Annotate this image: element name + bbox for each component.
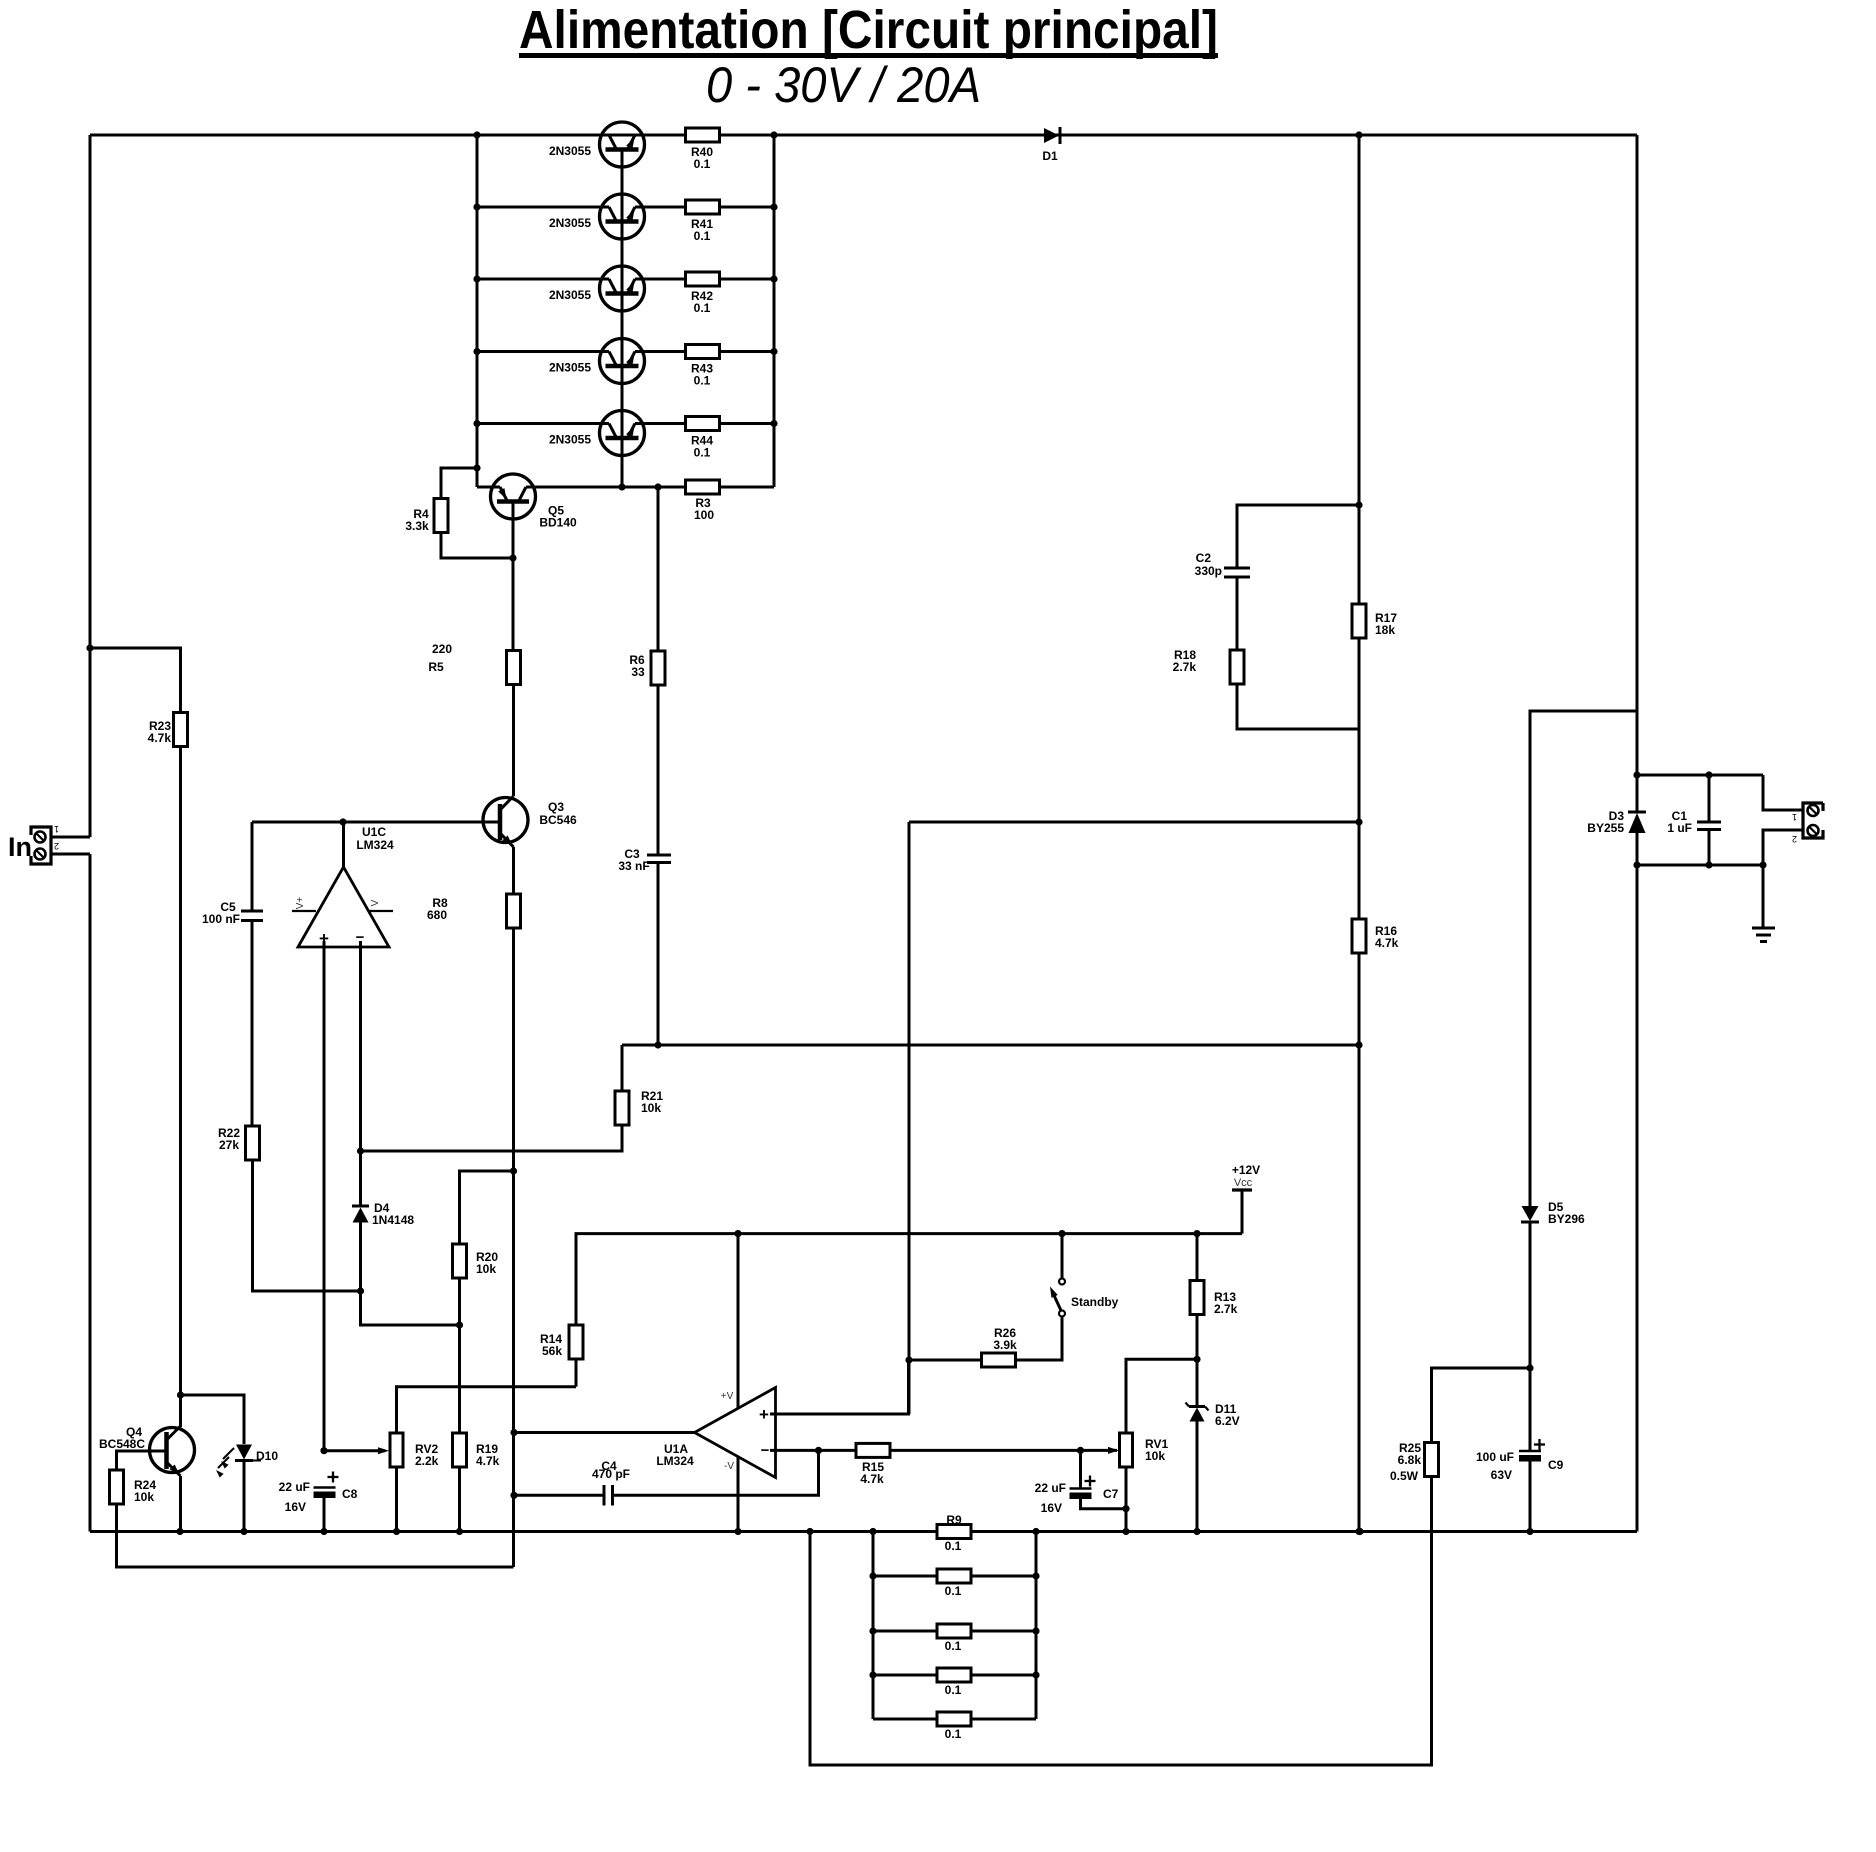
- wire array row 3 left: [873, 1630, 937, 1633]
- svg-text:10k: 10k: [134, 1490, 154, 1504]
- svg-text:2.2k: 2.2k: [415, 1454, 439, 1468]
- wire bottom bus: [90, 1530, 936, 1533]
- svg-text:R5: R5: [428, 660, 444, 674]
- svg-text:1: 1: [54, 824, 59, 834]
- node bus C9: [1526, 1528, 1533, 1535]
- svg-text:18k: 18k: [1375, 623, 1395, 637]
- node RV1 C7 junction: [1122, 1505, 1129, 1512]
- resistor R25 6.8k 0.5W: [1390, 1441, 1439, 1483]
- wire array row 4 right: [971, 1674, 1036, 1677]
- svg-text:0.1: 0.1: [945, 1639, 962, 1653]
- svg-text:2.7k: 2.7k: [1214, 1302, 1238, 1316]
- wire right rail low: [1358, 953, 1361, 1532]
- wire R26 left: [909, 1359, 982, 1362]
- wire R4 bottom: [441, 533, 513, 559]
- svg-text:V+: V+: [295, 897, 306, 910]
- wire array right branch: [1035, 1532, 1038, 1720]
- resistor R15 4.7k: [856, 1443, 890, 1486]
- diode D3 BY255: [1587, 809, 1646, 835]
- svg-text:10k: 10k: [476, 1262, 496, 1276]
- node bus array right: [1032, 1528, 1039, 1535]
- wire emitter row R42: [643, 278, 686, 281]
- node R23 junction: [86, 644, 93, 651]
- svg-text:V: V: [370, 899, 381, 906]
- resistor R22 27k: [218, 1126, 260, 1160]
- wire U1C noninverting input: [323, 941, 326, 1451]
- resistor R41 0.1: [686, 200, 720, 243]
- node sense on right rail: [1355, 818, 1362, 825]
- wire C4 left: [514, 1494, 604, 1497]
- node R25 junction: [1526, 1364, 1533, 1371]
- capacitor C9 100 uF 63V: [1476, 1439, 1564, 1482]
- svg-text:C9: C9: [1548, 1458, 1564, 1472]
- node C2 junction: [1355, 501, 1362, 508]
- node U1A V+ junction: [734, 1230, 741, 1237]
- wire Q3 base net: [252, 821, 483, 824]
- wire array row 3 right: [971, 1630, 1036, 1633]
- transistor Q40 2N3055: [549, 122, 645, 167]
- wire C4 right: [613, 1450, 819, 1495]
- resistor R43 0.1: [686, 345, 720, 388]
- svg-text:10k: 10k: [641, 1101, 661, 1115]
- svg-text:330p: 330p: [1195, 564, 1222, 578]
- svg-text:2N3055: 2N3055: [549, 361, 591, 375]
- wire output top: [1637, 774, 1763, 777]
- svg-text:BY296: BY296: [1548, 1212, 1585, 1226]
- node output bottom junction: [1633, 861, 1640, 868]
- wire R23 top: [90, 648, 181, 713]
- node bus R19: [456, 1528, 463, 1535]
- node D10 branch junction: [177, 1391, 184, 1398]
- node bus C8: [320, 1528, 327, 1535]
- node R20 to emitter line: [510, 1167, 517, 1174]
- node emitter rail: [770, 275, 777, 282]
- svg-text:0.1: 0.1: [694, 374, 711, 388]
- svg-text:-V: -V: [724, 1461, 734, 1472]
- connector In: [31, 824, 59, 864]
- node array left row 3: [869, 1627, 876, 1634]
- transistor Q44 2N3055: [549, 411, 645, 456]
- capacitor C2 330p: [1195, 551, 1250, 578]
- svg-text:Vcc: Vcc: [1234, 1177, 1253, 1189]
- wire D10 branch: [181, 1395, 245, 1444]
- svg-text:U1C: U1C: [362, 825, 386, 839]
- svg-text:1N4148: 1N4148: [372, 1213, 414, 1227]
- svg-text:470 pF: 470 pF: [592, 1467, 630, 1481]
- node bus loop: [806, 1528, 813, 1535]
- potentiometer RV2 2.2k: [324, 1433, 439, 1468]
- wire emitter row R41: [643, 206, 686, 209]
- wire Q4 base: [117, 1451, 151, 1470]
- resistor R6 33: [629, 651, 665, 685]
- wire C9 bottom: [1529, 1462, 1532, 1532]
- svg-text:4.7k: 4.7k: [1375, 936, 1399, 950]
- svg-text:0.1: 0.1: [945, 1727, 962, 1741]
- svg-text:+V: +V: [721, 1391, 734, 1402]
- svg-text:16V: 16V: [285, 1500, 306, 1514]
- svg-text:10k: 10k: [1145, 1449, 1165, 1463]
- resistor R21 10k: [615, 1089, 663, 1125]
- svg-text:0.1: 0.1: [694, 301, 711, 315]
- wire R13 bottom: [1196, 1315, 1199, 1360]
- node inverting input junction: [357, 1147, 364, 1154]
- wire In pin2: [51, 853, 90, 856]
- resistor R16 4.7k: [1352, 919, 1399, 953]
- wire D5 branch top: [1530, 711, 1637, 1206]
- node array right row 3: [1032, 1627, 1039, 1634]
- svg-text:0.1: 0.1: [945, 1584, 962, 1598]
- svg-text:BC546: BC546: [539, 813, 577, 827]
- wire R20 top: [460, 1171, 514, 1252]
- node D11 junction: [1193, 1356, 1200, 1363]
- resistor R9 0.1: [937, 1513, 971, 1553]
- node bus U1A -V: [734, 1528, 741, 1535]
- svg-text:100: 100: [694, 508, 714, 522]
- resistor R4 3.3k: [405, 499, 448, 534]
- wire C5 to R22: [251, 921, 254, 1128]
- wire collector row R41: [477, 206, 601, 209]
- resistor R40 0.1: [686, 128, 720, 171]
- node C4 feedback junction: [815, 1447, 822, 1454]
- wire U1A output: [514, 1431, 695, 1434]
- svg-text:0 - 30V / 20A: 0 - 30V / 20A: [706, 57, 981, 113]
- node emitter rail: [770, 348, 777, 355]
- node Q5 base junction: [509, 554, 516, 561]
- node U1A output junction: [510, 1429, 517, 1436]
- transistor Q4 BC548C: [99, 1425, 195, 1476]
- wire far right rail: [1636, 135, 1639, 812]
- node ground junction: [1759, 861, 1766, 868]
- svg-text:In: In: [8, 832, 32, 862]
- wire collector row R40: [477, 134, 601, 137]
- svg-text:BD140: BD140: [539, 516, 577, 530]
- wire U1A noninverting wire: [770, 1360, 909, 1414]
- capacitor C4 470 pF: [592, 1459, 630, 1506]
- label In: [8, 832, 32, 862]
- wire C2 branch: [1237, 505, 1359, 568]
- wire R44 to rail: [720, 422, 775, 425]
- node bus right rail: [1356, 1528, 1363, 1535]
- resistor R44 0.1: [686, 417, 720, 460]
- wire R23 to Q4: [179, 747, 182, 1428]
- node collector rail row3: [473, 275, 480, 282]
- node bus array left: [869, 1528, 876, 1535]
- svg-text:220: 220: [432, 642, 452, 656]
- node In return corner: [89, 854, 92, 1532]
- resistor R19 4.7k: [453, 1433, 500, 1468]
- wire collector row R42: [477, 278, 601, 281]
- wire D11 bottom: [1196, 1422, 1199, 1532]
- wire R14 top: [576, 1234, 738, 1325]
- wire top rail junction at R40 rail: [770, 131, 777, 138]
- svg-text:6.8k: 6.8k: [1398, 1453, 1422, 1467]
- transistor Q3 BC546: [483, 796, 577, 847]
- wire R13 top: [1196, 1234, 1199, 1281]
- svg-text:LM324: LM324: [356, 838, 394, 852]
- node R13 junction: [1193, 1230, 1200, 1237]
- wire sense to R21: [621, 1045, 624, 1092]
- subtitle: 0 - 30V / 20A: [706, 57, 981, 113]
- wire R24 bottom: [117, 1504, 514, 1567]
- capacitor C5 100 nF: [202, 900, 263, 926]
- svg-text:3.9k: 3.9k: [993, 1338, 1017, 1352]
- node RV1 wiper junction: [1077, 1447, 1084, 1454]
- wire emitter resistor rail: [773, 135, 776, 487]
- wire Q3 emitter to R8: [512, 847, 515, 894]
- wire RV1 top: [1126, 1359, 1197, 1433]
- wire array row 2 left: [873, 1575, 937, 1578]
- wire C7 bottom: [1081, 1499, 1127, 1509]
- svg-text:22 uF: 22 uF: [279, 1480, 310, 1494]
- wire D4 junction down: [361, 1291, 460, 1325]
- wire R5 to Q3 collector: [512, 685, 515, 797]
- node array right row 2: [1032, 1572, 1039, 1579]
- transistor Q5 BD140: [491, 474, 578, 558]
- resistor R42 0.1: [686, 272, 720, 315]
- node collector rail row2: [473, 203, 480, 210]
- wire array left branch: [872, 1532, 875, 1720]
- svg-text:C8: C8: [342, 1487, 358, 1501]
- svg-text:1: 1: [1792, 812, 1797, 822]
- wire R15 to RV1: [890, 1449, 1117, 1452]
- switch Standby: [1050, 1279, 1119, 1317]
- wire right rail top: [1358, 135, 1361, 605]
- svg-text:2N3055: 2N3055: [549, 144, 591, 158]
- resistor R5 220: [428, 642, 520, 685]
- node noninverting junction: [905, 1356, 912, 1363]
- op-amp U1C LM324: [292, 822, 394, 948]
- wire sense horizontal: [622, 1044, 1359, 1047]
- wire emitter row R40: [643, 134, 686, 137]
- resistor R9 parallel 3 0.1: [937, 1624, 971, 1653]
- svg-text:+: +: [759, 1405, 769, 1424]
- wire R41 to rail: [720, 206, 775, 209]
- node bus RV2: [393, 1528, 400, 1535]
- svg-text:2: 2: [1792, 834, 1797, 844]
- wire top rail junction at left collector rail: [473, 131, 480, 138]
- node bus RV1: [1122, 1528, 1129, 1535]
- node standby junction: [1058, 1230, 1065, 1237]
- svg-text:4.7k: 4.7k: [148, 731, 172, 745]
- wire R42 to rail: [720, 278, 775, 281]
- wire R25 top: [1432, 1368, 1531, 1443]
- zener D11 6.2V: [1186, 1402, 1240, 1428]
- wire top rail junction at right sense rail: [1355, 131, 1362, 138]
- svg-text:2: 2: [54, 841, 59, 851]
- capacitor C7 22 uF 16V: [1035, 1476, 1119, 1516]
- svg-text:2.7k: 2.7k: [1173, 660, 1197, 674]
- svg-text:2N3055: 2N3055: [549, 288, 591, 302]
- svg-text:3.3k: 3.3k: [405, 519, 429, 533]
- svg-text:680: 680: [427, 908, 447, 922]
- wire R8 down feedback: [512, 928, 515, 1567]
- wire sense feedback: [909, 821, 1359, 824]
- wire array row 2 right: [971, 1575, 1036, 1578]
- wire RV2 top: [397, 1387, 577, 1433]
- resistor R9 parallel 4 0.1: [937, 1668, 971, 1697]
- wire R21 bottom: [361, 1125, 623, 1151]
- svg-text:33: 33: [631, 665, 645, 679]
- ground: [1752, 928, 1775, 942]
- wire Q4 emitter: [179, 1476, 182, 1532]
- wire R43 to rail: [720, 350, 775, 353]
- capacitor C8 22 uF 16V: [279, 1472, 358, 1515]
- resistor R9 parallel 2 0.1: [937, 1569, 971, 1598]
- wire C7 top: [1079, 1450, 1082, 1488]
- wire U1A inverting wire: [770, 1449, 856, 1452]
- wire standby bottom: [1015, 1317, 1062, 1361]
- node top-left corner: [89, 135, 92, 837]
- wire R14 bottom: [575, 1359, 578, 1387]
- LED D10: [216, 1445, 278, 1478]
- svg-text:100 nF: 100 nF: [202, 912, 240, 926]
- node emitter rail: [770, 203, 777, 210]
- wire to D4: [359, 1151, 362, 1206]
- wire array row 5 right: [971, 1718, 1036, 1721]
- title: Alimentation [Circuit principal]: [519, 0, 1218, 60]
- wire sense vertical: [908, 822, 911, 1414]
- node collector rail row5: [473, 420, 480, 427]
- svg-text:Alimentation [Circuit principa: Alimentation [Circuit principal]: [519, 0, 1218, 60]
- capacitor C1 1 uF: [1667, 775, 1721, 865]
- connector Out: [1792, 803, 1823, 844]
- wire R4 top: [441, 468, 477, 499]
- node bus Q4 emitter: [176, 1528, 183, 1535]
- node array left row 2: [869, 1572, 876, 1579]
- diode D5 BY296: [1521, 1200, 1585, 1226]
- resistor R9 parallel 5 0.1: [937, 1712, 971, 1741]
- wire R25 bottom loop: [810, 1477, 1432, 1766]
- svg-text:0.1: 0.1: [694, 229, 711, 243]
- resistor R17 18k: [1352, 604, 1397, 638]
- resistor R8 680: [427, 894, 521, 928]
- svg-text:33 nF: 33 nF: [618, 859, 649, 873]
- svg-text:2N3055: 2N3055: [549, 433, 591, 447]
- wire In pin1: [51, 836, 90, 839]
- transistor Q41 2N3055: [549, 194, 645, 239]
- svg-text:BY255: BY255: [1587, 821, 1624, 835]
- wire D4 anode: [359, 1223, 362, 1292]
- svg-text:16V: 16V: [1041, 1501, 1062, 1515]
- node C1 top: [1705, 771, 1712, 778]
- wire right rail mid: [1358, 638, 1361, 920]
- node base bus at driver row: [618, 483, 625, 490]
- wire C2 to R18: [1236, 577, 1239, 650]
- svg-text:−: −: [761, 1442, 770, 1459]
- wire R18 bottom: [1237, 684, 1359, 729]
- svg-text:Q3: Q3: [548, 800, 564, 814]
- wire output bottom: [1637, 864, 1763, 867]
- wire collector row R44: [477, 422, 601, 425]
- wire bottom bus right: [972, 1530, 1637, 1533]
- svg-text:C2: C2: [1196, 551, 1212, 565]
- wire array row 5 left: [873, 1718, 937, 1721]
- wire array row 4 left: [873, 1674, 937, 1677]
- svg-text:BC548C: BC548C: [99, 1437, 145, 1451]
- svg-text:+12V: +12V: [1232, 1163, 1260, 1177]
- node array right row 4: [1032, 1671, 1039, 1678]
- svg-text:100 uF: 100 uF: [1476, 1450, 1514, 1464]
- node collector rail row4: [473, 348, 480, 355]
- node R20 junction: [456, 1321, 463, 1328]
- wire emitter row R43: [643, 350, 686, 353]
- svg-text:Standby: Standby: [1071, 1295, 1119, 1309]
- wire R6 top: [657, 487, 660, 651]
- wire R40 to rail: [720, 134, 775, 137]
- svg-text:D1: D1: [1042, 149, 1058, 163]
- wire Q5 collector row: [535, 486, 774, 489]
- node output top junction: [1633, 771, 1640, 778]
- wire ground drop: [1762, 865, 1765, 927]
- svg-text:0.1: 0.1: [694, 157, 711, 171]
- resistor R14 56k: [540, 1325, 583, 1359]
- svg-text:0.1: 0.1: [945, 1683, 962, 1697]
- wire RV2 bottom: [395, 1467, 398, 1532]
- node U1C output junction: [339, 818, 346, 825]
- node C1 bottom: [1705, 861, 1712, 868]
- wire collector row R43: [477, 350, 601, 353]
- wire collector rail: [476, 135, 479, 487]
- svg-text:56k: 56k: [542, 1344, 562, 1358]
- transistor Q42 2N3055: [549, 266, 645, 311]
- node C3 junction: [654, 1041, 661, 1048]
- capacitor C3 33 nF: [618, 847, 671, 873]
- svg-text:0.1: 0.1: [694, 446, 711, 460]
- node C4 junction: [510, 1492, 517, 1499]
- resistor R13 2.7k: [1190, 1281, 1238, 1317]
- wire top rail: [90, 134, 1637, 137]
- wire C5 top: [251, 822, 254, 911]
- diode D1: [1042, 127, 1060, 163]
- node emitter rail: [770, 420, 777, 427]
- node R6 takeoff: [654, 483, 661, 490]
- wire R20 to R19: [458, 1278, 461, 1433]
- resistor R23 4.7k: [148, 713, 188, 747]
- wire far right rail lower: [1636, 833, 1639, 1532]
- svg-text:LM324: LM324: [656, 1454, 694, 1468]
- svg-text:63V: 63V: [1491, 1468, 1512, 1482]
- resistor R26 3.9k: [982, 1326, 1018, 1367]
- wire standby top: [1061, 1234, 1064, 1279]
- svg-text:6.2V: 6.2V: [1215, 1414, 1240, 1428]
- svg-text:1 uF: 1 uF: [1667, 821, 1692, 835]
- wire C3 to sense wire: [657, 863, 660, 1046]
- wire Vcc rail: [738, 1232, 1242, 1235]
- svg-text:0.5W: 0.5W: [1390, 1469, 1419, 1483]
- resistor R24 10k: [110, 1470, 157, 1504]
- node right rail sense junction: [1355, 1041, 1362, 1048]
- wire R19 bottom: [458, 1467, 461, 1532]
- svg-text:D10: D10: [256, 1449, 278, 1463]
- node bus D10: [240, 1528, 247, 1535]
- svg-text:4.7k: 4.7k: [860, 1472, 884, 1486]
- diode D4 1N4148: [352, 1201, 414, 1227]
- svg-text:C7: C7: [1103, 1487, 1119, 1501]
- svg-text:27k: 27k: [219, 1138, 239, 1152]
- wire Q5 base to R5: [512, 558, 515, 651]
- svg-text:0.1: 0.1: [945, 1539, 962, 1553]
- transistor Q43 2N3055: [549, 339, 645, 384]
- wire D10 bottom: [243, 1461, 246, 1532]
- node bus D11: [1193, 1528, 1200, 1535]
- svg-text:2N3055: 2N3055: [549, 216, 591, 230]
- resistor R18 2.7k: [1173, 648, 1244, 684]
- wire base bus: [621, 149, 624, 487]
- resistor R3 100: [686, 480, 720, 522]
- wire D5 to C9: [1529, 1222, 1532, 1451]
- op-amp U1A LM324: [656, 1234, 775, 1532]
- wire output top corner: [1763, 775, 1803, 810]
